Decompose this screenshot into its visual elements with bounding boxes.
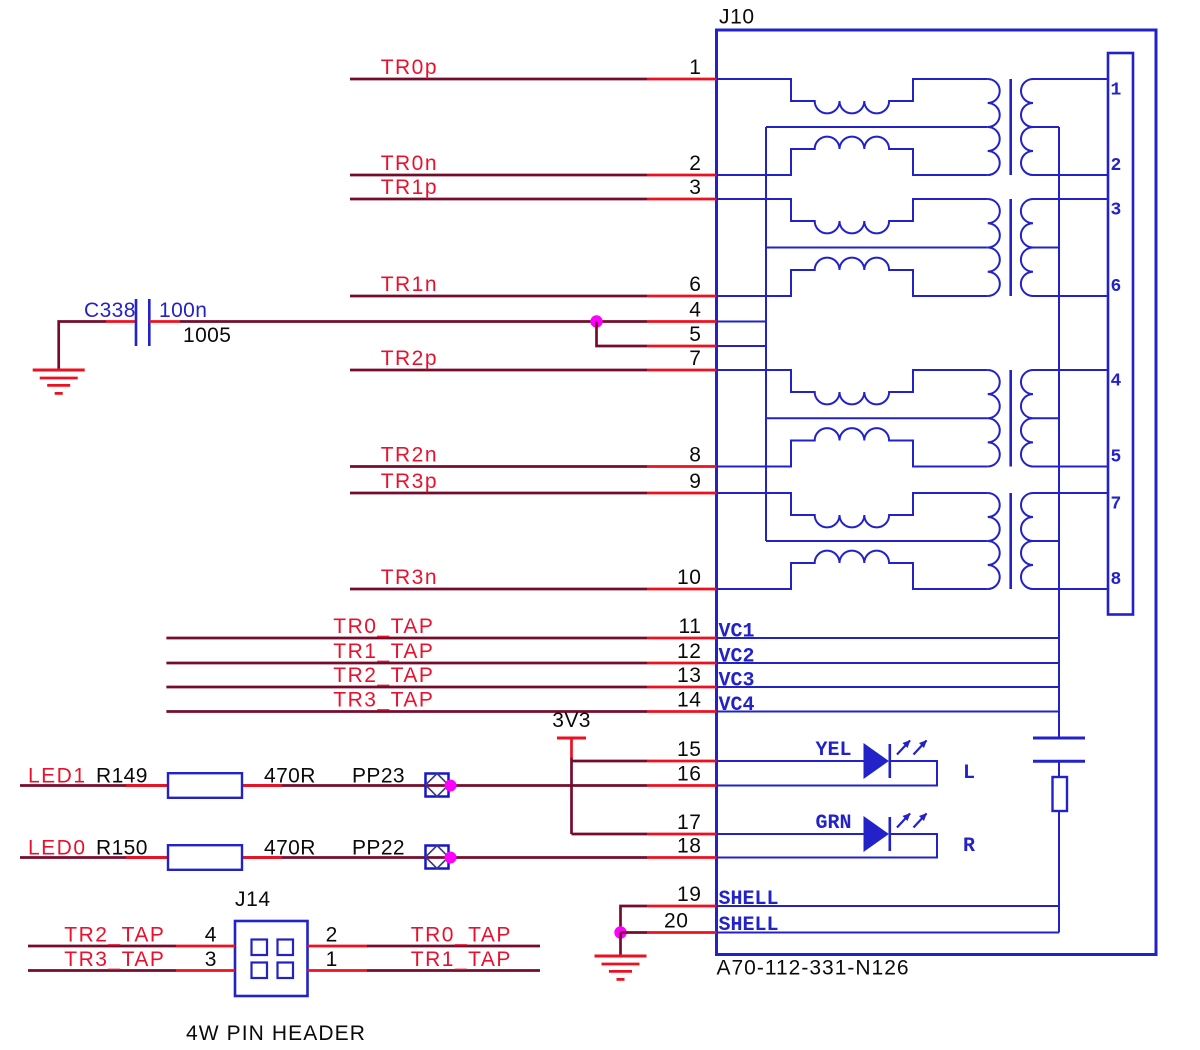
svg-text:J14: J14 xyxy=(235,888,271,911)
wire T2 primary center tap xyxy=(766,247,988,249)
choke L2 lower winding (pin 6 side) xyxy=(717,258,988,296)
svg-text:LED1: LED1 xyxy=(28,765,87,788)
svg-text:LED0: LED0 xyxy=(28,837,87,860)
svg-text:TR1n: TR1n xyxy=(381,273,438,296)
resistor R149 right stub xyxy=(242,784,282,787)
wire TR0n to pin 2 xyxy=(350,174,647,177)
svg-text:R150: R150 xyxy=(96,837,148,860)
wire T1 primary center tap xyxy=(766,126,988,128)
svg-text:TR1_TAP: TR1_TAP xyxy=(411,948,512,971)
svg-text:TR3_TAP: TR3_TAP xyxy=(64,948,165,971)
3V3 power stem xyxy=(570,738,573,758)
wire T2 secondary center tap xyxy=(1033,247,1059,249)
resistor R150 right stub xyxy=(242,856,282,859)
LED GRN cathode bar xyxy=(888,817,891,851)
wire TR1_TAP from J14 pin 1 xyxy=(367,969,540,972)
pin 17 stub xyxy=(647,833,717,836)
transformer T3 primary winding xyxy=(988,370,1000,467)
svg-text:3: 3 xyxy=(689,176,701,199)
svg-text:PP22: PP22 xyxy=(352,837,405,860)
LED YEL anode wire xyxy=(717,760,865,762)
svg-text:14: 14 xyxy=(677,689,702,712)
svg-text:20: 20 xyxy=(664,910,689,933)
wire TR1n to pin 6 xyxy=(350,295,647,298)
svg-text:TR0_TAP: TR0_TAP xyxy=(333,615,434,638)
svg-text:470R: 470R xyxy=(264,837,316,860)
connector J10 outline xyxy=(717,30,1157,955)
svg-text:C338: C338 xyxy=(84,299,136,322)
transformer T1 secondary winding xyxy=(1021,79,1033,175)
wire resistor to shell xyxy=(1058,811,1060,933)
svg-text:19: 19 xyxy=(677,883,702,906)
pin 19 stub xyxy=(647,905,717,908)
wire node to shell ground xyxy=(619,933,622,957)
wire TR0p to pin 1 xyxy=(350,78,647,81)
svg-text:SHELL: SHELL xyxy=(719,914,779,937)
J14 pin 4 stub xyxy=(176,945,235,948)
wire LED1 row xyxy=(20,784,647,787)
resistor (internal, to shell) xyxy=(1053,777,1068,811)
pin 4 stub xyxy=(647,320,717,323)
wire T4 secondary center tap xyxy=(1033,540,1059,542)
svg-text:SHELL: SHELL xyxy=(719,888,779,911)
svg-text:1: 1 xyxy=(326,948,338,971)
wire T1 secondary top to RJ45 xyxy=(1033,78,1108,80)
svg-text:8: 8 xyxy=(1111,570,1122,590)
transformer T3 secondary winding xyxy=(1021,370,1033,467)
wire SHELL (pin 19) xyxy=(717,905,1060,907)
svg-text:100n: 100n xyxy=(159,299,207,322)
ground symbol (shell) xyxy=(595,956,647,979)
svg-text:TR0n: TR0n xyxy=(381,152,438,175)
svg-text:J10: J10 xyxy=(719,6,755,29)
wire cap to resistor xyxy=(1058,761,1060,777)
wire TR3_TAP to J14 pin 3 xyxy=(28,969,176,972)
svg-text:VC3: VC3 xyxy=(719,670,755,693)
svg-text:TR0p: TR0p xyxy=(381,56,438,79)
svg-text:13: 13 xyxy=(677,664,702,687)
svg-text:16: 16 xyxy=(677,763,702,786)
svg-text:8: 8 xyxy=(689,444,701,467)
LED YEL cathode return wire xyxy=(717,761,938,786)
J14 pin 1 stub xyxy=(308,969,368,972)
svg-text:YEL: YEL xyxy=(816,739,852,762)
pin 20 stub xyxy=(647,931,717,934)
shell ground junction dot xyxy=(614,926,626,938)
wire TR3n to pin 10 xyxy=(350,588,647,591)
LED GRN anode wire xyxy=(717,833,865,835)
svg-text:7: 7 xyxy=(1111,495,1122,515)
test point PP23 symbol xyxy=(426,774,449,797)
pin 5 stub xyxy=(647,345,717,348)
test point PP23 junction dot xyxy=(445,780,457,792)
pin 7 stub xyxy=(647,369,717,372)
svg-text:GRN: GRN xyxy=(816,812,852,835)
wire SHELL (pin 20) xyxy=(717,932,1060,934)
transformer T3 core xyxy=(1009,370,1012,467)
LED YEL emission arrows xyxy=(897,740,927,755)
wire VC1 (pin 11) xyxy=(717,637,1060,639)
transformer T1 core xyxy=(1009,79,1012,175)
svg-text:TR3p: TR3p xyxy=(381,470,438,493)
resistor R150 body xyxy=(168,845,242,870)
wire T3 secondary center tap xyxy=(1033,417,1059,419)
wire T3 secondary top to RJ45 xyxy=(1033,369,1108,371)
svg-text:9: 9 xyxy=(689,470,701,493)
C338 right pin stub xyxy=(149,320,180,323)
wire T2 secondary bottom to RJ45 xyxy=(1033,295,1108,297)
svg-text:470R: 470R xyxy=(264,765,316,788)
choke L3 lower winding (pin 8 side) xyxy=(717,428,988,466)
wire pin 4 to tap bus xyxy=(717,321,767,323)
svg-text:4: 4 xyxy=(689,299,701,322)
transformer T2 secondary winding xyxy=(1021,199,1033,296)
wire 3V3 to pin 17 xyxy=(572,833,648,836)
wire pin 5 to tap bus xyxy=(717,345,767,347)
pin 9 stub xyxy=(647,492,717,495)
wire TR1p to pin 3 xyxy=(350,198,647,201)
wire VC3 (pin 13) xyxy=(717,686,1060,688)
wire VC2 (pin 12) xyxy=(717,662,1060,664)
wire T4 secondary bottom to RJ45 xyxy=(1033,588,1108,590)
svg-text:VC4: VC4 xyxy=(719,694,755,717)
choke L1 lower winding (pin 2 side) xyxy=(717,137,988,175)
wire TR2_TAP to J14 pin 4 xyxy=(28,945,176,948)
svg-text:TR2n: TR2n xyxy=(381,444,438,467)
test point PP22 junction dot xyxy=(445,852,457,864)
wire TR0_TAP to pin 11 xyxy=(166,637,647,640)
transformer T2 core xyxy=(1009,199,1012,296)
wire T4 secondary top to RJ45 xyxy=(1033,492,1108,494)
wire T2 secondary top to RJ45 xyxy=(1033,198,1108,200)
wire TR0_TAP from J14 pin 2 xyxy=(367,945,540,948)
svg-text:3: 3 xyxy=(205,948,217,971)
pin 13 stub xyxy=(647,686,717,689)
svg-text:1005: 1005 xyxy=(183,324,231,347)
wire TR2_TAP to pin 13 xyxy=(166,686,647,689)
node junction dot pins 4/5 xyxy=(590,315,602,327)
svg-text:TR0_TAP: TR0_TAP xyxy=(411,924,512,947)
connector J14 body xyxy=(235,921,308,996)
svg-text:TR2_TAP: TR2_TAP xyxy=(64,924,165,947)
test point PP22 symbol xyxy=(426,846,449,869)
wire node to pin 20 xyxy=(621,931,648,934)
pin 15 stub xyxy=(647,760,717,763)
svg-text:PP23: PP23 xyxy=(352,765,405,788)
resistor R149 left stub xyxy=(126,784,168,787)
LED GRN emission arrows xyxy=(897,813,927,828)
wire 3V3 to pin 15 xyxy=(572,760,648,763)
wire T1 secondary center tap xyxy=(1033,126,1059,128)
LED YEL cathode bar xyxy=(888,744,891,778)
secondary center-tap bus xyxy=(1058,127,1060,738)
svg-text:10: 10 xyxy=(677,566,702,589)
capacitor plate bottom (internal) xyxy=(1033,760,1085,763)
LED YEL triangle xyxy=(864,744,888,778)
svg-text:3: 3 xyxy=(1111,201,1122,221)
pin 11 stub xyxy=(647,637,717,640)
choke L4 lower winding (pin 10 side) xyxy=(717,551,988,589)
transformer T4 secondary winding xyxy=(1021,493,1033,589)
wire TR2n to pin 8 xyxy=(350,465,647,468)
wire T1 secondary bottom to RJ45 xyxy=(1033,174,1108,176)
wire 3V3 rail xyxy=(570,758,573,835)
svg-text:7: 7 xyxy=(689,347,701,370)
capacitor C338 plates xyxy=(135,299,138,346)
pin 3 stub xyxy=(647,198,717,201)
svg-text:2: 2 xyxy=(1111,156,1122,176)
svg-text:A70-112-331-N126: A70-112-331-N126 xyxy=(717,957,910,980)
svg-text:VC1: VC1 xyxy=(719,621,755,644)
svg-text:1: 1 xyxy=(1111,81,1122,101)
wire LED0 row xyxy=(20,856,647,859)
svg-text:6: 6 xyxy=(689,273,701,296)
pin 2 stub xyxy=(647,174,717,177)
svg-text:R: R xyxy=(963,835,975,858)
svg-text:5: 5 xyxy=(1111,448,1122,468)
LED GRN triangle xyxy=(864,817,888,851)
resistor R149 body xyxy=(168,773,242,798)
pin 12 stub xyxy=(647,662,717,665)
svg-text:TR2p: TR2p xyxy=(381,347,438,370)
pin 14 stub xyxy=(647,710,717,713)
choke L2 upper winding (pin 3 side) xyxy=(717,199,988,233)
wire C338 to pin 4 node xyxy=(180,320,647,323)
wire node to pin 5 xyxy=(597,322,648,347)
LED GRN cathode return wire xyxy=(717,834,938,858)
wire T4 primary center tap xyxy=(766,540,988,542)
svg-text:TR2_TAP: TR2_TAP xyxy=(333,664,434,687)
choke L4 upper winding (pin 9 side) xyxy=(717,493,988,527)
pin 18 stub xyxy=(647,856,717,859)
choke L1 upper winding (pin 1 side) xyxy=(717,79,988,113)
wire VC4 (pin 14) xyxy=(717,711,1060,713)
transformer T4 core xyxy=(1009,493,1012,589)
C338 left pin stub xyxy=(106,320,136,323)
svg-text:2: 2 xyxy=(326,924,338,947)
svg-text:VC2: VC2 xyxy=(719,646,755,669)
pin 8 stub xyxy=(647,465,717,468)
svg-text:TR3_TAP: TR3_TAP xyxy=(333,689,434,712)
resistor R150 left stub xyxy=(126,856,168,859)
svg-text:TR1p: TR1p xyxy=(381,176,438,199)
choke L3 upper winding (pin 7 side) xyxy=(717,370,988,404)
svg-text:11: 11 xyxy=(679,615,702,638)
J14 contact squares xyxy=(252,940,294,979)
J14 pin 2 stub xyxy=(308,945,368,948)
capacitor plate top (internal) xyxy=(1033,737,1085,740)
wire T3 primary center tap xyxy=(766,417,988,419)
svg-text:3V3: 3V3 xyxy=(552,709,591,732)
svg-text:TR3n: TR3n xyxy=(381,566,438,589)
transformer T2 primary winding xyxy=(988,199,1000,296)
pin 10 stub xyxy=(647,588,717,591)
svg-text:R149: R149 xyxy=(96,765,148,788)
transformer T1 primary winding xyxy=(988,79,1000,175)
wire TR1_TAP to pin 12 xyxy=(166,662,647,665)
svg-text:12: 12 xyxy=(677,640,702,663)
primary center-tap bus xyxy=(765,127,767,541)
wire TR3p to pin 9 xyxy=(350,492,647,495)
svg-text:L: L xyxy=(963,762,975,785)
svg-text:1: 1 xyxy=(689,56,701,79)
J14 pin 3 stub xyxy=(176,969,235,972)
svg-text:15: 15 xyxy=(677,738,702,761)
wire ground to C338 xyxy=(59,322,106,371)
pin 16 stub xyxy=(647,784,717,787)
svg-text:4W PIN HEADER: 4W PIN HEADER xyxy=(186,1022,366,1045)
transformer T4 primary winding xyxy=(988,493,1000,589)
svg-text:5: 5 xyxy=(689,323,701,346)
wire T3 secondary bottom to RJ45 xyxy=(1033,466,1108,468)
svg-text:2: 2 xyxy=(689,152,701,175)
svg-text:6: 6 xyxy=(1111,277,1122,297)
wire pin 19 to ground node xyxy=(621,906,648,933)
svg-text:18: 18 xyxy=(677,835,702,858)
svg-text:17: 17 xyxy=(677,811,702,834)
wire TR2p to pin 7 xyxy=(350,369,647,372)
pin 6 stub xyxy=(647,295,717,298)
wire TR3_TAP to pin 14 xyxy=(166,710,647,713)
svg-text:4: 4 xyxy=(205,924,217,947)
pin 1 stub xyxy=(647,78,717,81)
svg-text:4: 4 xyxy=(1111,372,1122,392)
ground symbol (C338) xyxy=(33,370,85,393)
3V3 power bar xyxy=(557,737,586,740)
RJ45 pin strip xyxy=(1108,53,1133,615)
svg-text:TR1_TAP: TR1_TAP xyxy=(333,640,434,663)
